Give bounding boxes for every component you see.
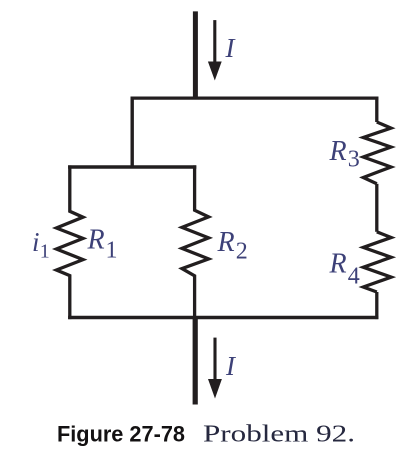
- resistor R1 (left branch zigzag): [56, 165, 83, 319]
- resistor R4 (right branch lower zigzag): [363, 232, 391, 292]
- wire: left drop from top rail to parallel-section rail: [130, 97, 133, 169]
- label R4: [329, 249, 360, 290]
- wire: right branch bottom segment: [375, 292, 378, 319]
- svg-text:I: I: [225, 33, 237, 63]
- svg-text:Figure 27-78: Figure 27-78: [57, 422, 185, 447]
- svg-text:R: R: [329, 136, 347, 167]
- svg-text:I: I: [225, 351, 237, 381]
- svg-text:4: 4: [348, 264, 360, 290]
- svg-text:3: 3: [348, 147, 360, 173]
- wire: right branch middle segment between R3 and R4: [375, 184, 378, 232]
- arrow: top current direction arrow: [208, 20, 222, 80]
- label R2: [217, 227, 248, 265]
- wire: upper rail of parallel section (node joining R1 and R2 tops): [68, 165, 196, 168]
- label I (bottom current): [225, 351, 237, 381]
- wire: thick top lead carrying current I: [193, 11, 198, 98]
- wire: thick bottom lead carrying current I: [193, 316, 198, 405]
- wire: right branch top segment: [375, 97, 378, 123]
- label R1: [87, 225, 118, 264]
- resistor R2 (middle branch zigzag): [182, 165, 209, 319]
- label I (top current): [225, 33, 237, 63]
- svg-text:R: R: [329, 249, 347, 280]
- wire: bottom horizontal rail: [68, 316, 378, 320]
- svg-text:R: R: [87, 225, 105, 256]
- wire: top horizontal rail: [131, 96, 379, 99]
- label i1 (current through R1): [32, 227, 50, 263]
- svg-text:2: 2: [236, 239, 248, 265]
- arrow: bottom current direction arrow: [208, 338, 222, 399]
- svg-text:1: 1: [40, 240, 50, 262]
- caption: Figure 27-78: [57, 422, 185, 447]
- svg-text:1: 1: [106, 238, 118, 264]
- label R3: [329, 136, 360, 173]
- svg-text:Problem 92.: Problem 92.: [203, 422, 355, 448]
- resistor R3 (right branch upper zigzag): [363, 122, 391, 184]
- caption: Problem 92.: [203, 422, 355, 448]
- svg-text:R: R: [217, 227, 235, 258]
- svg-text:i: i: [32, 227, 40, 257]
